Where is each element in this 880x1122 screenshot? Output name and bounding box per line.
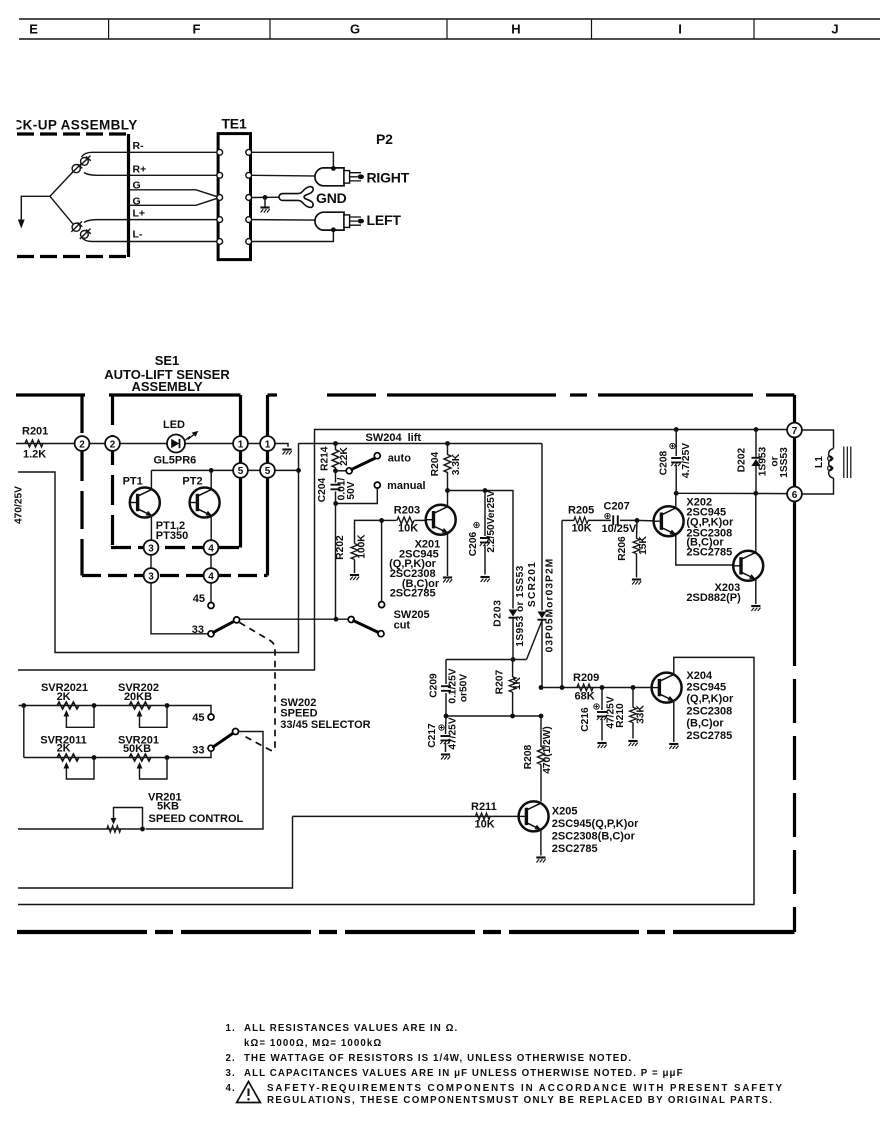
svg-text:CK-UP ASSEMBLY: CK-UP ASSEMBLY [13,118,138,133]
resistor R214 [335,444,337,451]
svg-text:D203: D203 [493,599,504,627]
svg-text:2SC945(Q,P,K)or: 2SC945(Q,P,K)or [552,818,639,830]
switch SW204 common contact [346,468,352,474]
wire R+ to RIGHT plug [252,175,344,176]
wire terminal 4 to 45 contact [210,583,212,602]
wire terminal 6 rail [676,492,787,494]
PCB boundary top edge (left stub) [16,393,85,396]
wire X204 emitter to ground [673,701,675,742]
switch SW205 moving contact [378,631,384,637]
wire base rail to R202 [355,520,382,543]
svg-text:D202: D202 [737,447,748,472]
junction C209 bottom [444,714,449,719]
svg-text:2SC2308(B,C)or: 2SC2308(B,C)or [552,831,636,843]
wire X205 base drop [18,816,293,888]
terminal block TE1 [218,134,250,260]
svg-text:C209: C209 [429,673,440,698]
pick-up assembly label (clipped PICK-UP) [13,118,138,133]
junction PT2 collector [209,468,214,473]
X205 label block [552,806,639,856]
wire L- [82,237,220,242]
junction rail left [21,703,26,708]
diode D202 [754,427,759,432]
junction VR201 wiper [140,827,145,832]
wire SW202 common to VR201 rail [146,732,264,830]
svg-text:SW204 lift: SW204 lift [366,432,422,444]
svg-text:1S953 or 1SS53: 1S953 or 1SS53 [515,565,526,647]
pick-up assembly boundary right vertical [127,134,130,257]
svg-text:33: 33 [192,745,204,757]
resistor R202 [351,544,358,560]
resistor R207 [512,660,514,678]
coil L1 [829,449,834,478]
warning triangle [237,1082,261,1103]
svg-text:33/45 SELECTOR: 33/45 SELECTOR [280,719,370,731]
svg-text:H: H [511,21,520,36]
svg-text:5: 5 [265,466,271,477]
svg-text:ALL RESISTANCES VALUES ARE IN: ALL RESISTANCES VALUES ARE IN Ω. [244,1023,458,1034]
svg-text:2SC945: 2SC945 [686,682,726,694]
L1 core [844,447,851,479]
ground symbol [260,208,269,213]
svg-text:2: 2 [79,439,85,450]
PCB boundary right edge dashed part [793,622,796,932]
coil L1 wiring [802,430,833,494]
svg-text:50V: 50V [346,481,357,499]
svg-text:LEFT: LEFT [367,212,402,228]
transistor X205 [519,801,549,831]
trimmer SVR202 [129,702,151,709]
wire PT collector rail (terminal 5 row) [151,469,298,471]
svg-text:33: 33 [192,624,204,636]
SE1 inner box top edge [109,393,241,396]
svg-text:SCR201: SCR201 [527,561,538,607]
wire SW205 to X201 base [381,520,383,601]
resistor R203 [382,519,397,521]
wire ground net from TE1 [252,196,281,198]
resistor R206 [636,520,639,538]
wire VR201 rail [18,828,143,830]
diode D203 [509,610,518,617]
terminal 4 outer [204,568,219,583]
SE1 inner box right vertical [239,395,242,548]
X202 label block [686,497,734,559]
svg-text:4.7/25V: 4.7/25V [681,443,692,478]
svg-text:R214: R214 [320,446,331,471]
junction R207 bottom [510,714,515,719]
wire X202 emitter to X203 base [676,535,733,565]
transistor X204 [652,673,682,703]
wire PT1 emitter to terminal 3 [150,516,152,568]
SCR201 gate wire [527,621,543,660]
capacitor C217 [445,716,448,752]
svg-text:10/25V: 10/25V [602,523,638,535]
svg-text:2.: 2. [226,1053,236,1064]
svg-text:C204: C204 [317,477,328,502]
ground below C216 [597,743,606,748]
wire R201 row [16,443,74,445]
wire X203 emitter to ground [755,580,757,605]
svg-text:R202: R202 [335,535,346,560]
terminal 1 inner [233,436,248,451]
svg-text:2SC2785: 2SC2785 [552,843,598,855]
svg-text:R203: R203 [394,505,420,517]
junction R208 top [539,714,544,719]
potentiometer VR201 [107,826,121,833]
svg-text:R208: R208 [523,744,534,769]
wire X204 collector loop to bottom rail [18,657,754,904]
ground below R210 [628,741,637,746]
svg-text:1.: 1. [226,1023,236,1034]
svg-text:X205: X205 [552,806,578,818]
junction C216 top [600,685,605,690]
RCA plug RIGHT [315,168,364,186]
X201 label block [389,539,440,600]
switch SW201 lever [214,621,235,632]
svg-text:R204: R204 [430,451,441,476]
terminal 4 inner [204,540,219,555]
svg-text:C206: C206 [468,531,479,556]
X204 label block [686,670,734,742]
junction R210 top [631,685,636,690]
wire to SW204 common [336,470,347,472]
switch SW205 lever [354,621,379,633]
common wire to arm ground arrow [21,196,50,221]
svg-text:R+: R+ [133,163,147,175]
RCA plug LEFT [315,212,364,230]
capacitor C208 [674,427,679,432]
SE1 outer boundary right vertical [266,395,269,576]
switch SW205 left contact [348,617,354,623]
svg-text:7: 7 [792,426,798,437]
junction SVR202 wiper [165,703,170,708]
svg-text:R207: R207 [495,669,506,694]
svg-text:1: 1 [238,439,244,450]
pick-up assembly dashed boundary top [17,132,126,135]
svg-text:R211: R211 [471,801,497,813]
svg-text:6: 6 [792,490,798,501]
PCB boundary top edge (dashed run to right corner) [268,393,795,396]
svg-text:2SC2785: 2SC2785 [686,730,732,742]
svg-text:10K: 10K [398,523,418,535]
svg-text:50KB: 50KB [123,743,151,755]
svg-text:10K: 10K [475,819,495,831]
svg-text:03P05Mor03P2M: 03P05Mor03P2M [545,558,556,653]
svg-text:SPEED CONTROL: SPEED CONTROL [149,813,244,825]
svg-text:0.1/25V: 0.1/25V [448,668,459,703]
chassis ground stub [264,197,266,206]
svg-text:SPEED: SPEED [280,708,317,720]
wire R- [82,152,220,157]
wire X205 base rail [293,815,519,817]
terminal 3 outer [144,568,159,583]
wire X202 collector [675,493,677,507]
svg-text:1K: 1K [512,676,523,690]
svg-text:PT350: PT350 [156,530,188,542]
SE1 inner box left vertical [111,395,114,548]
svg-text:3: 3 [148,571,154,582]
svg-text:PT2: PT2 [182,475,202,487]
svg-text:2K: 2K [57,743,71,755]
phototransistor PT1 [130,488,160,518]
switch SW205 upper contact [379,602,385,608]
wire X201 collector rail [448,491,514,609]
wire X203 collector [755,493,757,552]
svg-text:22K: 22K [339,447,350,466]
switch SW201 common contact [234,617,240,623]
svg-text:P2: P2 [376,131,393,147]
trimmer SVR2011 [57,754,79,761]
capacitor C209 [445,660,447,717]
svg-text:PT1: PT1 [123,475,143,487]
svg-text:100K: 100K [357,534,368,559]
mechanical link SW201-SW202 (dashed) [240,623,276,751]
svg-text:GL5PR6: GL5PR6 [154,455,197,467]
trimmer SVR2021 [57,702,79,709]
wire PT1 collector [150,470,152,489]
+B wire to coil rail [18,430,787,671]
terminal 1 outer [260,436,275,451]
svg-text:G: G [133,179,141,191]
svg-text:THE WATTAGE OF RESISTORS IS 1/: THE WATTAGE OF RESISTORS IS 1/4W, UNLESS… [244,1053,632,1064]
svg-text:I: I [678,21,682,36]
wire L- to LEFT plug [252,231,334,241]
cartridge generator right channel [71,156,91,174]
svg-text:SE1: SE1 [155,353,180,368]
svg-text:1SS53: 1SS53 [779,447,790,478]
terminal 6 [787,487,802,502]
resistor R211 [475,813,490,820]
capacitor C216 [601,688,603,741]
svg-text:5KB: 5KB [157,801,179,813]
thyristor SCR201 [538,612,547,619]
wire C217 rail [446,715,541,717]
svg-text:20KB: 20KB [124,691,152,703]
svg-text:F: F [193,21,201,36]
PCB boundary bottom edge [17,930,795,934]
svg-text:R210: R210 [615,703,626,728]
SE1 inner box bottom [111,546,241,549]
ground below X203 [751,606,760,611]
svg-text:3.3K: 3.3K [451,453,462,475]
wire PT2 emitter to terminal 4 [210,516,212,568]
junction SVR2021 wiper [92,703,97,708]
svg-text:1: 1 [265,439,271,450]
capacitor C206 [484,491,486,537]
svg-text:J: J [831,21,838,36]
trimmer SVR201 [129,754,151,761]
ground below C206 [480,577,489,582]
wire terminal 3 to 33 contact [151,583,208,634]
resistor R209 [577,684,593,691]
wire 470/25V cap to terminal5 net [18,444,299,653]
svg-text:5: 5 [238,466,244,477]
junction R206 top [635,518,640,523]
thyristor SCR201 anode wire [541,444,543,611]
junction R214 bottom / C204 [333,468,338,473]
svg-text:TE1: TE1 [221,116,246,132]
svg-text:(B,C)or: (B,C)or [686,718,724,730]
terminal 7 [787,423,802,438]
svg-text:2SC2308: 2SC2308 [686,706,732,718]
svg-text:L+: L+ [133,207,146,219]
junction L- at plug [331,227,336,232]
svg-text:C207: C207 [604,501,630,513]
wire X201 emitter to ground [447,534,449,577]
junction SVR2011 wiper [92,755,97,760]
wire R205 to SCR cathode rail [561,520,563,687]
svg-text:2SD882(P): 2SD882(P) [686,592,741,604]
transistor X203 [733,551,763,581]
svg-text:2SC2785: 2SC2785 [390,588,436,600]
junction X201 base [379,518,384,523]
svg-text:45: 45 [192,712,204,724]
svg-text:E: E [29,21,38,36]
svg-text:470(1/2W): 470(1/2W) [542,726,553,774]
wire R209 rail [541,687,652,689]
wire L+ to LEFT plug [252,219,344,222]
svg-text:cut: cut [394,620,411,632]
svg-text:manual: manual [387,480,426,492]
ground below X204 [669,744,678,749]
capacitor C207 [613,515,618,525]
svg-text:L1: L1 [814,456,825,468]
switch SW204 lever [352,457,379,470]
svg-text:C208: C208 [659,450,670,475]
svg-text:G: G [133,195,141,207]
svg-text:3.: 3. [226,1068,236,1079]
switch SW204 manual contact [374,482,380,488]
switch SW201 33 contact [208,631,214,637]
svg-text:RIGHT: RIGHT [367,169,410,185]
resistor R205 [562,519,574,521]
junction R205 drop [560,685,565,690]
wire from left generator to common [50,196,73,224]
switch SW201 45 contact [208,603,214,609]
svg-text:REGULATIONS, THESE COMPONENTSM: REGULATIONS, THESE COMPONENTSMUST ONLY B… [267,1095,773,1106]
wire trimmer rail lower [24,752,211,758]
svg-text:C217: C217 [427,723,438,748]
svg-text:R201: R201 [22,426,48,438]
wire labels R- R+ G G L+ L- [133,140,147,240]
switch SW202 common contact [233,729,239,735]
junction SVR201 wiper [165,755,170,760]
svg-text:X204: X204 [686,670,713,682]
transistor X202 [654,506,684,536]
wire R+ [84,173,220,176]
wire SW201 common to SW205 net [240,618,349,620]
junction C204 bottom / SW205 [334,617,339,622]
wire R- to RIGHT plug [252,152,334,166]
svg-text:47/25V: 47/25V [448,717,459,749]
svg-text:2SC2785: 2SC2785 [686,547,732,559]
ground below X201 [443,578,452,583]
resistor R201 [25,440,43,447]
capacitor C204 [335,471,337,483]
svg-text:R206: R206 [617,536,628,561]
junction R- at plug [331,166,336,171]
svg-text:33K: 33K [636,705,647,724]
wire LED row [90,444,288,447]
svg-text:3: 3 [148,543,154,554]
svg-text:4: 4 [208,543,214,554]
resistor R204 [445,441,450,446]
PCB boundary right edge solid part [793,395,796,622]
svg-text:10K: 10K [572,523,592,535]
svg-text:GND: GND [316,190,347,206]
svg-text:2K: 2K [57,691,71,703]
svg-text:15K: 15K [638,536,649,555]
svg-text:LED: LED [163,419,185,431]
wire R214/R204 rail [299,443,543,445]
svg-text:or50V: or50V [459,674,470,703]
ground at terminal 1 [282,450,291,455]
svg-text:2: 2 [110,439,116,450]
svg-text:1S953: 1S953 [758,446,769,476]
svg-text:R205: R205 [568,505,594,517]
ground below C217 [441,755,450,760]
junction X203 collector / D202 [753,491,758,496]
ground below R206 [632,580,641,585]
ground below X205 [536,858,545,863]
junction X202 collector / C208 [674,491,679,496]
wire manual contact to C204 bottom net [336,488,378,503]
switch SW202 33 contact [208,745,214,751]
ground arrow head [18,220,25,229]
resistor R208 [538,747,545,765]
wire G lower [129,198,220,206]
pick-up assembly dashed boundary bottom [17,255,126,258]
cartridge generator left channel [71,221,91,239]
ground below R202 [350,575,359,580]
junction terminal5 net [296,468,301,473]
svg-text:68K: 68K [575,691,595,703]
junction X201 collector [445,488,450,493]
SW202 label block [280,697,370,731]
GND spade lug [279,187,313,208]
junction SCR cathode / R209 rail [539,685,544,690]
wire left link between rails [23,706,25,758]
junction ground net [263,195,268,200]
terminal 2 outer [75,436,90,451]
svg-text:R209: R209 [573,672,599,684]
svg-text:R-: R- [133,140,145,152]
junction D203 cathode [511,657,516,662]
SE1 outer boundary left vertical [80,395,83,576]
wire trimmer rail upper [19,706,211,714]
TE1 terminal pins [217,149,252,244]
wire X205 emitter to ground [540,830,542,856]
svg-text:ALL CAPACITANCES VALUES ARE IN: ALL CAPACITANCES VALUES ARE IN μF UNLESS… [244,1068,684,1079]
wire C209 top rail [446,659,527,661]
junction R214 top [333,441,338,446]
SE1 outer boundary bottom [82,574,268,577]
svg-text:45: 45 [193,593,205,605]
wire L+ [84,220,220,223]
wire from right generator to common [50,172,73,196]
svg-text:4.: 4. [226,1083,236,1094]
header frame [19,19,880,39]
svg-text:C216: C216 [580,707,591,732]
svg-text:(Q,P,K)or: (Q,P,K)or [686,693,734,705]
wire G upper [129,190,220,198]
switch SW204 auto contact [374,453,380,459]
terminal 5 inner [233,463,248,478]
svg-text:4: 4 [208,571,214,582]
switch SW202 45 contact [208,714,214,720]
LED GL5PR6 [167,431,198,453]
svg-text:G: G [350,21,360,36]
